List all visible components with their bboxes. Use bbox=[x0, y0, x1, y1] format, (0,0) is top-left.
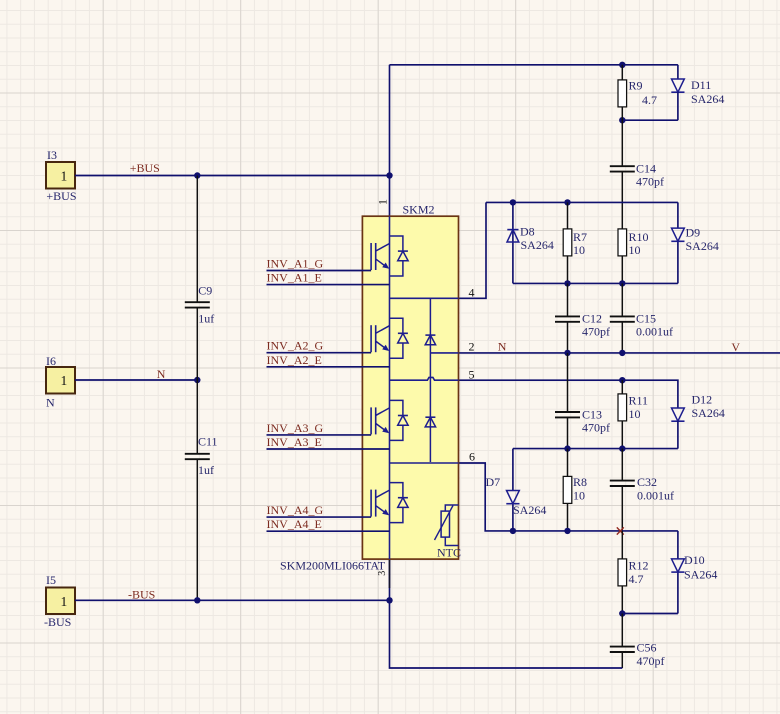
junction R10 bottom / C15 bbox=[619, 280, 625, 286]
junction D7 bottom bbox=[510, 528, 516, 534]
junction N column bbox=[194, 377, 200, 383]
wire mid rail R7/R10 bottoms bbox=[513, 282, 678, 284]
wire INV_A3_E emitter bbox=[267, 448, 390, 450]
pin number 2 bbox=[469, 340, 475, 354]
svg-text:R8: R8 bbox=[573, 475, 587, 489]
wire main vertical bottom pin 3 bbox=[389, 559, 391, 600]
net label +BUS bbox=[130, 161, 160, 175]
junction R9 bottom bbox=[619, 117, 625, 123]
svg-text:R12: R12 bbox=[629, 559, 649, 573]
svg-text:470pf: 470pf bbox=[582, 421, 610, 435]
wire lower mid rail bbox=[513, 448, 678, 450]
wire D8 vertical bbox=[512, 202, 514, 283]
wire main vertical top (pin 1 riser) bbox=[389, 65, 391, 216]
net label INV_A1_G bbox=[267, 257, 324, 271]
svg-text:R7: R7 bbox=[573, 230, 587, 244]
IGBT Q1 (INV_A1) bbox=[371, 236, 408, 276]
svg-text:1: 1 bbox=[61, 594, 68, 609]
pin number 4 bbox=[469, 285, 475, 299]
svg-text:C9: C9 bbox=[198, 284, 212, 298]
net label -BUS bbox=[128, 587, 155, 601]
IGBT Q2 (INV_A2) bbox=[371, 318, 408, 358]
resistor R7 bbox=[563, 202, 587, 283]
capacitor C9 bbox=[185, 176, 215, 381]
svg-text:2: 2 bbox=[469, 340, 475, 354]
svg-text:C56: C56 bbox=[637, 641, 657, 655]
svg-text:R10: R10 bbox=[629, 230, 649, 244]
svg-text:I3: I3 bbox=[47, 148, 57, 162]
svg-text:1: 1 bbox=[61, 373, 68, 388]
no-ERC marker cross bbox=[617, 527, 624, 534]
svg-text:1uf: 1uf bbox=[198, 463, 214, 477]
svg-text:I5: I5 bbox=[46, 573, 56, 587]
junction +BUS / main vertical bbox=[386, 172, 392, 178]
wire +BUS horizontal from I3 to main vertical bbox=[75, 175, 390, 177]
svg-text:-BUS: -BUS bbox=[128, 587, 155, 601]
svg-text:6: 6 bbox=[469, 450, 475, 464]
wire pin2 internal bbox=[430, 352, 458, 354]
svg-text:4: 4 bbox=[469, 285, 475, 299]
net label INV_A3_G bbox=[267, 421, 324, 435]
IGBT Q3 (INV_A3) bbox=[371, 400, 408, 440]
wire INV_A2_E emitter bbox=[267, 366, 390, 368]
svg-text:R11: R11 bbox=[629, 394, 649, 408]
wire D7 vertical bbox=[512, 449, 514, 531]
capacitor C14 bbox=[610, 162, 664, 189]
junction R9 top bbox=[619, 62, 625, 68]
junction C13 bottom / R8 top bbox=[564, 445, 570, 451]
wire R9 bottom to C14 bbox=[621, 120, 623, 166]
svg-text:C15: C15 bbox=[636, 312, 656, 326]
net label INV_A1_E bbox=[267, 271, 322, 285]
port connector I3 (+BUS) bbox=[46, 148, 77, 203]
wire pin5 internal with hop bbox=[390, 377, 459, 380]
svg-text:-BUS: -BUS bbox=[44, 615, 71, 629]
svg-text:D10: D10 bbox=[684, 553, 705, 567]
svg-text:C13: C13 bbox=[582, 408, 602, 422]
junction N / C15 bbox=[619, 350, 625, 356]
net label INV_A4_E bbox=[267, 517, 322, 531]
wire pin5 net to D12 bbox=[459, 380, 678, 408]
diode D11 bbox=[671, 78, 724, 120]
wire INV_A2_G gate bbox=[267, 352, 372, 354]
clamp diode upper bbox=[425, 335, 435, 345]
svg-text:NTC: NTC bbox=[437, 546, 461, 560]
capacitor C15 bbox=[610, 283, 673, 353]
wire pin4 riser bbox=[459, 202, 487, 298]
capacitor C56 bbox=[610, 614, 665, 669]
junction R12 bottom / C56 bbox=[619, 610, 625, 616]
svg-text:3: 3 bbox=[377, 571, 388, 576]
IGBT Q4 (INV_A4) bbox=[371, 483, 408, 523]
svg-text:SA264: SA264 bbox=[692, 406, 725, 420]
svg-text:+BUS: +BUS bbox=[130, 161, 160, 175]
diode D9 bbox=[671, 226, 719, 254]
svg-text:4.7: 4.7 bbox=[642, 93, 657, 107]
wire INV_A3_G gate bbox=[267, 434, 372, 436]
resistor R10 bbox=[618, 229, 649, 284]
svg-text:1uf: 1uf bbox=[198, 312, 214, 326]
pin number 1 (rotated) bbox=[375, 199, 389, 205]
wire D11 bottom to R9 bottom bbox=[622, 119, 678, 121]
svg-text:SA264: SA264 bbox=[684, 568, 717, 582]
junction -BUS / C11 bbox=[194, 597, 200, 603]
svg-text:SA264: SA264 bbox=[521, 238, 554, 252]
svg-text:D11: D11 bbox=[691, 78, 711, 92]
junction D8 top bbox=[510, 199, 516, 205]
svg-text:SKM2: SKM2 bbox=[403, 203, 435, 217]
svg-text:C32: C32 bbox=[637, 475, 657, 489]
wire INV_A4_G gate bbox=[267, 516, 372, 518]
svg-text:D12: D12 bbox=[692, 393, 713, 407]
IGBT module U SKM2 body bbox=[362, 216, 458, 559]
wire INV_A1_E emitter bbox=[267, 284, 390, 286]
wire -BUS horizontal bbox=[75, 599, 390, 601]
svg-text:N: N bbox=[46, 396, 55, 410]
net label INV_A4_G bbox=[267, 503, 324, 517]
wire bottom return rail bbox=[390, 600, 623, 668]
junction R7 top bbox=[564, 199, 570, 205]
svg-text:470pf: 470pf bbox=[582, 325, 610, 339]
svg-text:SA264: SA264 bbox=[686, 239, 719, 253]
wire pin4 internal bbox=[390, 297, 459, 299]
svg-text:SA264: SA264 bbox=[691, 92, 724, 106]
junction -BUS / main vertical bbox=[386, 597, 392, 603]
svg-text:INV_A4_G: INV_A4_G bbox=[267, 503, 324, 517]
wire D9 vertical bbox=[677, 202, 679, 283]
capacitor C32 bbox=[610, 449, 674, 531]
wire D11 branch right corner bbox=[677, 65, 679, 79]
junction R7 bottom / C12 bbox=[564, 280, 570, 286]
capacitor C11 bbox=[185, 380, 218, 600]
svg-text:R9: R9 bbox=[629, 79, 643, 93]
svg-text:SA264: SA264 bbox=[513, 503, 546, 517]
designator SKM2 bbox=[403, 203, 435, 217]
svg-text:SKM200MLI066TAT: SKM200MLI066TAT bbox=[280, 559, 386, 573]
diode D10 bbox=[671, 553, 717, 582]
svg-text:INV_A4_E: INV_A4_E bbox=[267, 517, 322, 531]
svg-text:5: 5 bbox=[469, 368, 475, 382]
svg-text:INV_A3_G: INV_A3_G bbox=[267, 421, 324, 435]
svg-text:INV_A1_G: INV_A1_G bbox=[267, 257, 324, 271]
svg-text:1: 1 bbox=[375, 199, 389, 205]
net label N (pin 2) bbox=[498, 339, 507, 353]
net label V bbox=[731, 340, 740, 354]
diode D7 bbox=[486, 475, 547, 517]
resistor R9 bbox=[618, 65, 657, 120]
svg-text:V: V bbox=[731, 340, 740, 354]
svg-text:10: 10 bbox=[629, 407, 641, 421]
wire clamp diode column bbox=[429, 298, 431, 462]
wire pin6 riser and rail bbox=[459, 463, 678, 531]
wire INV_A4_E emitter bbox=[267, 530, 390, 532]
comment SKM200MLI066TAT bbox=[280, 559, 386, 573]
svg-text:INV_A2_E: INV_A2_E bbox=[267, 353, 322, 367]
svg-text:470pf: 470pf bbox=[636, 175, 664, 189]
clamp diode lower bbox=[425, 417, 435, 427]
net label INV_A3_E bbox=[267, 435, 322, 449]
svg-text:I6: I6 bbox=[46, 354, 56, 368]
svg-text:0.001uf: 0.001uf bbox=[637, 489, 674, 503]
resistor R8 bbox=[563, 449, 587, 531]
pin number 5 bbox=[469, 368, 475, 382]
port connector I6 (N) bbox=[46, 354, 75, 410]
svg-text:C14: C14 bbox=[636, 162, 656, 176]
svg-text:C12: C12 bbox=[582, 312, 602, 326]
svg-text:1: 1 bbox=[61, 168, 68, 183]
svg-text:10: 10 bbox=[629, 243, 641, 257]
wire D10 vertical bbox=[677, 531, 679, 614]
diode D12 bbox=[671, 393, 725, 449]
svg-text:4.7: 4.7 bbox=[629, 572, 644, 586]
wire internal collector chain bbox=[389, 216, 391, 559]
pin number 3 (rotated) bbox=[377, 571, 388, 576]
junction R8 bottom bbox=[564, 528, 570, 534]
wire C14 to R10 (crosses rail, no junction) bbox=[621, 172, 623, 229]
port connector I5 (-BUS) bbox=[44, 573, 75, 629]
svg-text:D9: D9 bbox=[686, 226, 701, 240]
net label INV_A2_E bbox=[267, 353, 322, 367]
diode D8 bbox=[507, 225, 554, 253]
svg-text:INV_A3_E: INV_A3_E bbox=[267, 435, 322, 449]
svg-text:10: 10 bbox=[573, 489, 585, 503]
net label INV_A2_G bbox=[267, 339, 324, 353]
wire N from I6 to C9/C11 column bbox=[75, 379, 197, 381]
svg-text:N: N bbox=[498, 339, 507, 353]
junction N / C12-C13 bbox=[564, 350, 570, 356]
junction R11 top bbox=[619, 377, 625, 383]
thermistor NTC bbox=[435, 505, 462, 560]
svg-text:470pf: 470pf bbox=[637, 654, 665, 668]
svg-text:0.001uf: 0.001uf bbox=[636, 325, 673, 339]
svg-text:INV_A2_G: INV_A2_G bbox=[267, 339, 324, 353]
wire INV_A1_G gate bbox=[267, 270, 372, 272]
svg-text:INV_A1_E: INV_A1_E bbox=[267, 271, 322, 285]
resistor R12 bbox=[618, 531, 649, 614]
capacitor C13 bbox=[555, 353, 610, 449]
wire D10 bottom to R12 bottom bbox=[622, 613, 678, 615]
resistor R11 bbox=[618, 380, 648, 448]
svg-text:C11: C11 bbox=[198, 435, 218, 449]
junction R11 bottom / C32 top bbox=[619, 445, 625, 451]
svg-text:D7: D7 bbox=[486, 475, 501, 489]
junction +BUS / C9 bbox=[194, 172, 200, 178]
pin number 6 bbox=[469, 450, 475, 464]
net label N (left) bbox=[157, 367, 166, 381]
wire top distribution rail (pin 4 net) bbox=[486, 201, 678, 203]
capacitor C12 bbox=[555, 283, 610, 353]
wire N net (pin 2) to right edge bbox=[459, 352, 780, 354]
svg-text:N: N bbox=[157, 367, 166, 381]
svg-text:D8: D8 bbox=[520, 225, 535, 239]
svg-text:+BUS: +BUS bbox=[46, 189, 76, 203]
wire pin6 internal bbox=[390, 462, 459, 464]
svg-text:10: 10 bbox=[573, 243, 585, 257]
wire top rail to R9/D11 bbox=[390, 64, 678, 66]
